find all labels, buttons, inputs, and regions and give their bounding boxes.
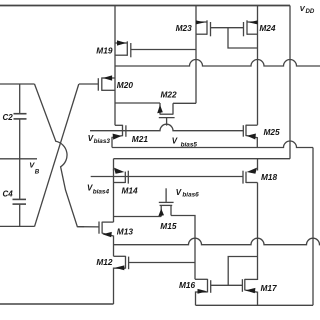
wire VB node (0, 158, 37, 160)
wire VDD right drop x=290 (289, 6, 291, 159)
label C4 (3, 190, 14, 199)
svg-text:bias3: bias3 (94, 138, 111, 145)
transistor M19 (115, 40, 131, 57)
node VB label (29, 160, 40, 175)
svg-text:M16: M16 (179, 280, 196, 290)
wire M19-M20-M21 source-drain chain x=115 (114, 6, 116, 126)
svg-text:M21: M21 (132, 134, 149, 144)
node VDD label (300, 4, 315, 15)
wire gate link to output node (228, 257, 257, 286)
label M22 (161, 89, 178, 99)
label M25 (264, 127, 281, 137)
wire cross diagonal from C2 node to M13 gate with crossover hop (35, 84, 85, 227)
wire M15 drain to M16 drain wire (194, 263, 196, 280)
wire rail from M19 drain to right edge with crossovers (115, 60, 320, 66)
wire C2 top lead (19, 84, 21, 113)
wire cross diagonal from M20 gate to lower-left node (35, 84, 79, 227)
svg-text:M25: M25 (264, 127, 281, 137)
wire output rail with crossovers (114, 238, 320, 244)
label M15 (160, 221, 177, 231)
label C2 (3, 113, 14, 122)
wire M23-M24 gate rail (211, 27, 244, 29)
transistor M15 (158, 188, 195, 262)
label M14 (122, 186, 139, 196)
svg-text:V: V (172, 136, 178, 145)
svg-text:bias4: bias4 (93, 189, 110, 196)
label M12 (96, 257, 113, 267)
label M19 (96, 46, 113, 56)
wire M12 gate to M15 drain (129, 262, 195, 264)
wire VDD top rail (0, 5, 290, 7)
wire rail M14 source to VDD drop corner (114, 158, 291, 160)
capacitor C4 (13, 199, 27, 226)
svg-text:M14: M14 (122, 186, 139, 196)
wire bottom-left node (0, 225, 35, 227)
svg-text:M19: M19 (96, 46, 113, 56)
wire M16-M17 common gate (211, 284, 243, 286)
svg-text:V: V (176, 188, 182, 197)
svg-text:M23: M23 (176, 23, 193, 33)
capacitor C2 (14, 114, 27, 159)
svg-text:M24: M24 (259, 23, 276, 33)
transistor M16 (195, 279, 211, 305)
transistor M24 (244, 20, 258, 36)
wire C2 top node (0, 83, 35, 85)
wire bias rail M21 gate to M25 gate with crossover (90, 124, 243, 130)
svg-text:DD: DD (306, 8, 315, 15)
transistor M25 (243, 125, 257, 148)
label M20 (117, 80, 134, 90)
wire M15 source link (114, 216, 162, 218)
transistor M22 (157, 103, 196, 126)
wire Vbias4 gate rail M14 to M18 (91, 176, 243, 178)
svg-text:M12: M12 (96, 257, 113, 267)
transistor M20 (79, 75, 115, 91)
transistor M13 (99, 222, 114, 257)
wire M24 gate-drain diode link (228, 28, 258, 48)
svg-text:C2: C2 (3, 113, 14, 122)
transistor M17 (242, 279, 257, 305)
svg-text:M22: M22 (161, 89, 178, 99)
node Vbias4 label (87, 184, 109, 196)
svg-text:M20: M20 (117, 80, 134, 90)
wire M22 source tap (115, 102, 160, 104)
node Vbias6 label (176, 188, 199, 199)
wire M18 drain down to output node (257, 183, 259, 281)
label M24 (259, 23, 276, 33)
label M17 (261, 283, 278, 293)
wire M23 source-drain x=196 (195, 6, 197, 104)
svg-text:C4: C4 (3, 190, 14, 199)
wire rail M21 source to right corner with crossover at x=290 (112, 141, 313, 148)
wire M19 gate to M23 drain node (131, 49, 196, 51)
transistor M21 (112, 125, 126, 148)
wire M24-M25 source-drain x=257.5 (257, 6, 259, 125)
label M23 (176, 23, 193, 33)
svg-text:M13: M13 (117, 227, 134, 237)
transistor M12 (114, 256, 129, 304)
wire bottom-right rail (196, 304, 314, 306)
transistor M23 (196, 20, 211, 36)
svg-text:M18: M18 (261, 172, 278, 182)
label M13 (117, 227, 134, 237)
wire right column x=313 (312, 148, 314, 306)
node Vbias3 label (88, 134, 111, 145)
svg-text:M15: M15 (160, 221, 177, 231)
transistor M14 (114, 168, 129, 184)
label M16 (179, 280, 196, 290)
svg-text:B: B (35, 168, 40, 175)
transistor M18 (243, 159, 258, 184)
node Vbias5 label (172, 136, 198, 148)
svg-text:bias6: bias6 (182, 192, 199, 199)
label M21 (132, 134, 149, 144)
wire C4 top lead (19, 159, 21, 199)
wire M13 gate wire from cross-coupling (77, 226, 99, 228)
label M18 (261, 172, 278, 182)
wire M14 source-drain chain x=113.5 (113, 159, 115, 222)
svg-text:M17: M17 (261, 283, 278, 293)
wire bottom-left rail to M12 source (0, 303, 114, 305)
